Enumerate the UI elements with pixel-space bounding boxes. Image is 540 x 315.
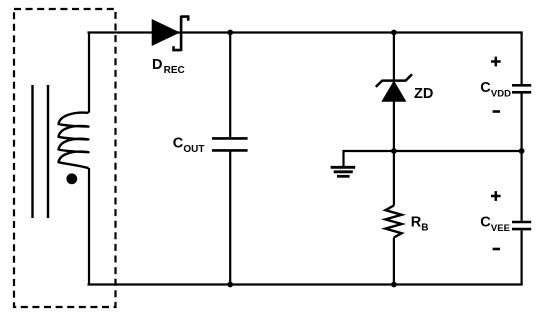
- svg-text:R: R: [411, 215, 422, 231]
- svg-text:VEE: VEE: [491, 223, 510, 234]
- svg-text:REC: REC: [164, 65, 185, 76]
- svg-text:ZD: ZD: [414, 86, 433, 102]
- svg-text:VDD: VDD: [491, 88, 511, 99]
- svg-text:B: B: [421, 223, 428, 234]
- svg-text:C: C: [480, 80, 491, 96]
- svg-text:C: C: [173, 136, 184, 152]
- svg-text:D: D: [152, 57, 162, 73]
- svg-text:OUT: OUT: [183, 144, 204, 155]
- svg-text:C: C: [480, 215, 491, 231]
